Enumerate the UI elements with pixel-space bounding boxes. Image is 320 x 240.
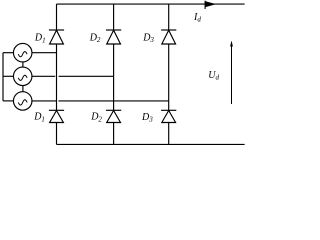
wire leg 3 lower <box>168 123 170 145</box>
svg-text:D1: D1 <box>33 112 45 124</box>
svg-text:D3: D3 <box>142 32 154 44</box>
wire stub between source1 and source2 <box>22 62 24 67</box>
wire top bus (+) <box>57 3 245 5</box>
ac source V3 <box>13 92 32 111</box>
wire leg 2 lower <box>113 123 115 145</box>
wire phase 1 <box>32 52 57 54</box>
diode D1 bottom <box>49 110 64 122</box>
wire leg 1 lower <box>56 123 58 145</box>
wire star-point bus <box>2 53 4 101</box>
svg-text:D2: D2 <box>90 112 102 124</box>
diode D3 top <box>161 30 176 44</box>
svg-text:D1: D1 <box>34 33 46 45</box>
diode D2 top <box>106 30 121 44</box>
wire leg 2 middle <box>113 44 115 110</box>
diode D2 bottom <box>106 110 121 122</box>
wire phase 2 left of leg1 <box>32 75 55 77</box>
ac source V2 <box>13 67 32 86</box>
svg-text:D2: D2 <box>89 32 101 44</box>
wire phase 3 left of leg1 <box>32 100 57 102</box>
wire source2 left <box>3 75 14 77</box>
arrow Id on top bus <box>205 1 215 9</box>
wire leg 3 upper <box>168 4 170 30</box>
svg-text:Ud: Ud <box>208 70 219 82</box>
wire phase 3 right of leg1 <box>58 100 168 102</box>
svg-text:D3: D3 <box>141 112 153 124</box>
arrow Ud (voltage) <box>230 41 232 104</box>
wire bottom bus (-) <box>57 143 245 145</box>
ac source V1 <box>13 43 32 62</box>
wire leg 1 middle <box>56 44 58 110</box>
wire leg 2 upper <box>113 4 115 30</box>
wire leg 1 upper <box>56 4 58 30</box>
wire phase 2 right of leg1 <box>59 75 114 77</box>
wire source1 left <box>3 52 14 54</box>
wire source3 left <box>3 100 14 102</box>
wire leg 3 middle <box>168 44 170 110</box>
diode D1 top <box>49 30 64 44</box>
wire stub between source2 and source3 <box>22 86 24 92</box>
svg-text:Id: Id <box>193 12 201 24</box>
diode D3 bottom <box>161 110 176 122</box>
